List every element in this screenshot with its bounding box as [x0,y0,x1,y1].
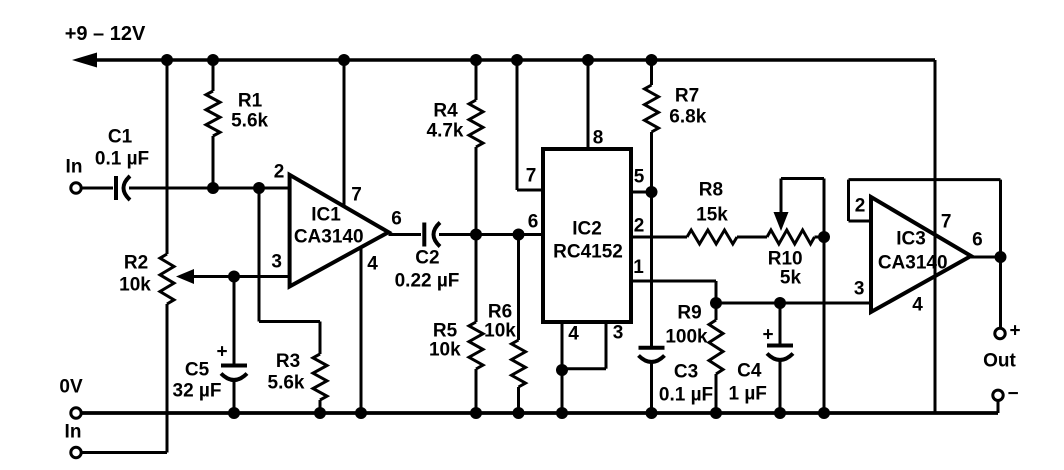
svg-text:10k: 10k [484,321,516,342]
svg-text:10k: 10k [119,275,151,296]
label IC2 pin 6 [528,212,539,233]
svg-text:6: 6 [972,230,983,251]
svg-text:CA3140: CA3140 [294,227,364,248]
svg-text:RC4152: RC4152 [553,242,623,263]
label IC3 pin 6 [972,230,983,251]
node 0V terminal [59,377,83,419]
svg-text:R3: R3 [276,351,300,372]
IC2 RC4152 body [543,149,631,322]
capacitor C3 [639,192,714,419]
svg-text:3: 3 [613,323,624,344]
resistor R8 [687,180,737,245]
wire IC1 out to C2 [389,233,422,236]
svg-text:4.7k: 4.7k [427,121,464,142]
svg-text:6.8k: 6.8k [669,107,706,128]
wire IC2 pin4 down [562,322,579,370]
wire IC1 pin2 node down to R3 [259,188,320,322]
wire IC2 pin5 stub [631,167,652,193]
node C5 junction on wiper wire [228,271,240,283]
svg-text:15k: 15k [696,205,728,226]
svg-text:2: 2 [634,216,645,237]
node R4/R5 junction [470,229,482,241]
svg-text:+: + [1009,321,1020,342]
svg-text:7: 7 [526,166,537,187]
node In (top input terminal) [66,157,83,194]
svg-text:7: 7 [941,212,952,233]
svg-text:+: + [216,342,227,363]
label IC2 pin 2 [634,216,645,237]
label IC3 pin 4 [912,295,923,316]
svg-text:10k: 10k [429,340,461,361]
label IC3 pin 7 [941,212,952,233]
svg-text:0.1 µF: 0.1 µF [95,149,149,170]
resistor R4 [427,54,483,235]
node R1-bottom junction [207,182,219,194]
wire pin1 node to IC3 pin3 [716,279,871,304]
label Out [983,351,1016,372]
svg-text:5.6k: 5.6k [231,111,268,132]
svg-text:4: 4 [367,254,378,275]
wire R2 bottom to lower In [82,304,168,453]
potentiometer R2 [119,253,174,305]
svg-text:IC3: IC3 [896,229,926,250]
svg-text:CA3140: CA3140 [878,253,948,274]
svg-text:R4: R4 [433,101,458,122]
svg-text:C5: C5 [185,360,210,381]
wire output to +Out [999,257,1002,328]
svg-text:Out: Out [983,351,1016,372]
op-amp IC3 [871,197,971,312]
svg-text:In: In [66,157,83,178]
node IC1 pin2 junction [253,182,265,194]
svg-text:R2: R2 [124,253,148,274]
svg-text:3: 3 [271,252,282,273]
node pins3-4 junction [556,364,568,376]
svg-text:0.1 µF: 0.1 µF [659,385,713,406]
wire R10 junction to 0V [818,237,830,419]
wire IC2 pin3 down [562,322,623,369]
svg-text:5k: 5k [780,268,802,289]
svg-text:C3: C3 [674,362,698,383]
node IC3 output junction [995,251,1007,263]
svg-text:6: 6 [391,209,402,230]
svg-text:R9: R9 [677,303,701,324]
wiper arrow R2 [176,269,290,284]
wire In to C1 [82,187,114,190]
node +Out terminal [995,321,1021,342]
wire IC3 pin2 feedback [849,180,1001,257]
wire IC2 pin1 to node [631,281,716,303]
wire R8 to R10 [737,236,767,239]
svg-text:IC1: IC1 [311,205,341,226]
wire IC2 pin2 to R8 [631,236,687,239]
ground rail 0V [82,411,999,415]
svg-text:R10: R10 [768,249,803,270]
node C4 top junction [774,297,786,309]
potentiometer R10 [767,230,824,289]
capacitor C2 [395,223,460,292]
svg-text:1 µF: 1 µF [728,384,766,405]
resistor R9 [665,303,723,420]
svg-text:6: 6 [528,212,539,233]
svg-text:IC2: IC2 [572,219,602,240]
wire IC1 pin4 to 0V [355,247,378,419]
svg-text:C4: C4 [737,361,762,382]
wire power-rail right drop [934,60,937,413]
resistor R6 [484,235,525,420]
label IC2 pin 1 [633,257,644,278]
wire IC2 pin7 to +V [511,54,543,190]
svg-text:3: 3 [854,279,865,300]
svg-text:1: 1 [633,257,644,278]
svg-text:5.6k: 5.6k [268,373,305,394]
svg-text:+9 – 12V: +9 – 12V [65,23,146,45]
svg-text:2: 2 [855,196,866,217]
capacitor C4 [728,303,793,419]
node In (lower input terminal) [65,422,82,458]
node R9 top junction [710,297,722,309]
wire -Out to 0V rail [997,401,1000,414]
svg-text:C2: C2 [415,248,439,269]
svg-text:0V: 0V [59,377,83,398]
op-amp IC1 [290,175,389,287]
label IC1 pin 3 [271,252,282,273]
svg-text:0.22 µF: 0.22 µF [395,271,460,292]
capacitor C5 [173,277,247,420]
resistor R1 [206,54,269,188]
svg-text:5: 5 [634,167,645,188]
svg-text:In: In [65,422,82,443]
svg-text:7: 7 [351,185,362,206]
svg-text:4: 4 [568,324,579,345]
power rail +9-12V [65,23,935,68]
svg-text:R7: R7 [675,86,699,107]
wire C1 to IC1 pin 2 [129,187,290,190]
resistor R5 [429,235,483,420]
capacitor C1 [95,127,149,201]
resistor R3 [268,322,327,420]
wire IC2 pin8 to +V [582,54,603,149]
svg-text:32 µF: 32 µF [173,381,222,402]
wire pins3-4 to 0V [556,370,568,419]
wire IC3 output [971,256,1001,259]
node R6 top junction [513,229,525,241]
svg-text:−: − [1007,384,1018,405]
node R10 right junction [818,231,830,243]
svg-text:8: 8 [593,128,604,149]
node -Out terminal [993,384,1019,405]
svg-text:2: 2 [274,162,285,183]
svg-text:+: + [762,325,773,346]
resistor R7 [645,54,707,192]
svg-text:R6: R6 [488,302,512,323]
svg-text:R5: R5 [433,321,458,342]
svg-text:C1: C1 [108,127,133,148]
wire C2 to IC2 pin 6 [439,233,543,236]
wiper arrow R10 [774,179,825,238]
wire +V to R2 top [161,54,173,254]
svg-text:R1: R1 [238,91,263,112]
svg-text:100k: 100k [665,327,708,348]
label IC1 pin 2 [274,162,285,183]
svg-text:R8: R8 [699,180,723,201]
wire IC1 pin7 to +V [338,54,362,206]
node IC2 pin5 junction [646,186,658,198]
label IC1 pin 6 [391,209,402,230]
svg-text:4: 4 [912,295,923,316]
